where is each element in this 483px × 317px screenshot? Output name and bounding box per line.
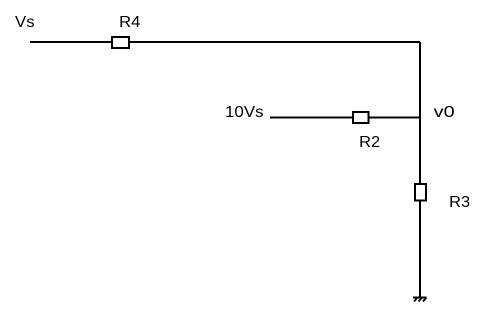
svg-text:R2: R2 (359, 134, 380, 151)
svg-text:R4: R4 (119, 14, 140, 31)
svg-text:Vs: Vs (15, 14, 35, 31)
svg-text:R3: R3 (449, 194, 470, 211)
svg-text:10Vs: 10Vs (225, 104, 264, 121)
svg-text:v0: v0 (434, 104, 455, 121)
